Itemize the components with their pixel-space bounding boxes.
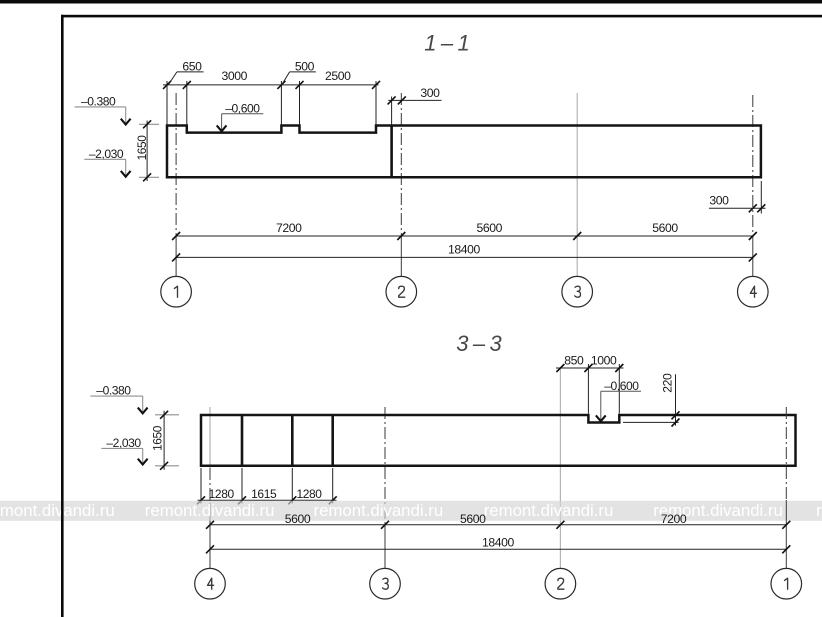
svg-text:7200: 7200 <box>276 221 302 235</box>
svg-text:3 – 3: 3 – 3 <box>456 331 502 356</box>
axis line 4 (section 1-1) <box>752 95 754 236</box>
220 notch depth dimension (section 3-3) <box>623 421 679 423</box>
svg-text:300: 300 <box>709 194 729 208</box>
wall joint line at axis 2 (section 1-1) <box>390 126 393 178</box>
svg-text:1650: 1650 <box>135 135 149 161</box>
grid circle 3 (section 3-3) <box>370 568 401 599</box>
svg-text:7200: 7200 <box>661 512 687 526</box>
svg-text:remont.divandi.ru: remont.divandi.ru <box>0 501 115 520</box>
wall line 2 in beam (section 3-3) <box>291 415 294 466</box>
svg-text:220: 220 <box>661 373 675 393</box>
watermark band <box>0 501 822 521</box>
grid circle 1 (section 1-1) <box>161 276 192 307</box>
dimension line 1280/1615/1280 <box>198 499 337 501</box>
frame: sheet top border line <box>61 15 822 18</box>
beam outline section 3-3 with top notch <box>201 415 796 466</box>
svg-text:–0.380: –0.380 <box>96 384 131 398</box>
grid circle 2 (section 3-3) <box>545 568 576 599</box>
svg-text:18400: 18400 <box>482 536 515 550</box>
svg-text:1650: 1650 <box>150 425 164 451</box>
svg-text:850: 850 <box>564 354 584 368</box>
watermark text row <box>0 501 822 520</box>
dimension row 5600/5600/7200 (section 3-3) <box>210 524 786 526</box>
grid circle 1 (section 3-3) <box>771 568 802 599</box>
svg-text:5600: 5600 <box>476 221 502 235</box>
svg-text:remont.divandi.ru: remont.divandi.ru <box>484 501 614 520</box>
beam outline section 1-1 with two top notches <box>167 126 761 178</box>
wall line 3 in beam (section 3-3) <box>331 415 334 466</box>
total dimension 18400 (section 1-1) <box>176 256 753 258</box>
svg-text:1280: 1280 <box>209 487 235 501</box>
dimension 850/1000 above notch (section 3-3) <box>587 364 589 414</box>
svg-text:remont.divandi.ru: remont.divandi.ru <box>314 501 444 520</box>
svg-text:5600: 5600 <box>460 512 486 526</box>
axis line 2 (section 1-1) <box>400 93 402 236</box>
dimension row 1280/1615/1280 (section 3-3) : extension lines <box>201 468 333 504</box>
vertical 1650 dimension (section 1-1) <box>139 123 159 125</box>
svg-text:1615: 1615 <box>251 487 277 501</box>
grid circle 3 (section 1-1) <box>562 276 593 307</box>
vertical 1650 dimension (section 3-3) <box>155 414 179 416</box>
dim ticks top chain <box>163 81 380 89</box>
300 dimension right of axis 4 (section 1-1) <box>760 181 762 214</box>
svg-text:2500: 2500 <box>325 69 351 83</box>
axis line 4 (section 3-3, light in beam) <box>209 407 211 468</box>
svg-text:650: 650 <box>182 59 202 73</box>
svg-text:1000: 1000 <box>591 354 617 368</box>
total dimension 18400 (section 3-3) <box>210 548 786 550</box>
axis line 3 (section 1-1, light) <box>576 93 578 276</box>
dimension row 7200/5600/5600 (section 1-1) <box>176 235 753 237</box>
axis line 1 (section 1-1) <box>175 93 177 236</box>
svg-text:1280: 1280 <box>296 487 322 501</box>
top dimension line (section 1-1) <box>163 84 379 86</box>
top dimension chain 650/3000/500/2500 : extension lines <box>167 81 376 125</box>
svg-text:5600: 5600 <box>285 512 311 526</box>
svg-text:–0,600: –0,600 <box>225 101 260 115</box>
svg-text:5600: 5600 <box>652 221 678 235</box>
grid circle 4 (section 3-3) <box>195 568 226 599</box>
axis line 1 (section 3-3) <box>785 407 787 500</box>
frame: sheet left border line <box>61 15 64 617</box>
wall line 1 in beam (section 3-3) <box>241 415 244 466</box>
svg-text:–2,030: –2,030 <box>106 436 141 450</box>
svg-text:remont.divandi.ru: remont.divandi.ru <box>145 501 275 520</box>
axis line 3 (section 3-3) <box>384 407 386 524</box>
svg-text:300: 300 <box>420 86 440 100</box>
svg-text:500: 500 <box>295 59 315 73</box>
axis line 2 (section 3-3, light) <box>559 368 561 568</box>
svg-text:remont.divandi.ru: remont.divandi.ru <box>816 501 822 520</box>
grid circle 4 (section 1-1) <box>738 276 769 307</box>
frame: top page edge line <box>0 0 822 4</box>
svg-text:18400: 18400 <box>448 243 481 257</box>
svg-text:3000: 3000 <box>221 69 247 83</box>
grid circle 2 (section 1-1) <box>386 276 417 307</box>
300 dimension near axis 2 (section 1-1) <box>391 97 393 125</box>
svg-text:1 – 1: 1 – 1 <box>424 31 470 56</box>
